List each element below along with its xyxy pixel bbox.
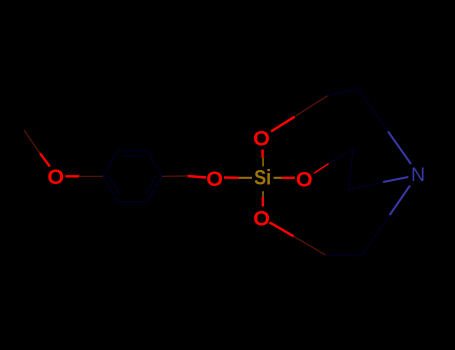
svg-text:O: O [253,206,270,230]
svg-text:O: O [206,167,223,191]
svg-text:N: N [411,164,425,186]
svg-text:O: O [253,126,270,150]
svg-text:Si: Si [254,166,271,190]
svg-text:O: O [296,167,313,191]
svg-text:O: O [47,165,64,189]
